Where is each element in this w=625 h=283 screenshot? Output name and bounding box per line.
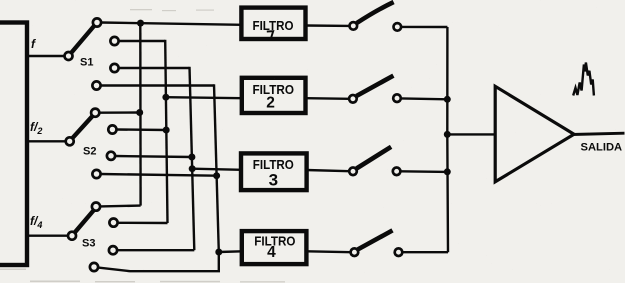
junction node output bus / amp input [444, 131, 451, 138]
wire S2 throw4 to bus 4 [101, 174, 217, 176]
wire S3 throw4 to bus 4 [98, 252, 219, 271]
switch S1 pole [65, 52, 73, 60]
wire S1 throw4 to bus 4 [101, 84, 214, 86]
wire bus 2 to filter 2 input [166, 97, 242, 98]
wire S2 throw2 to bus 2 [117, 128, 167, 131]
junction node bus1/filter1 line [137, 20, 144, 27]
output switch 2 contact b [393, 94, 401, 102]
wire bus 3 vertical (filter 3 net) [190, 67, 195, 250]
output switch 3 contact a [349, 168, 357, 176]
wire bus 1 vertical (filter 1 net) [139, 23, 142, 206]
output switch 4 contact a [351, 248, 359, 256]
signal source box [0, 23, 27, 266]
junction node bus3/S2 [188, 154, 195, 161]
wire S3 throw2 to bus 2 [118, 222, 168, 225]
wire filter 4 output [307, 250, 351, 253]
wire output bus vertical [446, 27, 449, 252]
switch S1 arm [72, 26, 95, 53]
junction node bus4/S2 [213, 172, 220, 179]
output switch 2 arm (open) [356, 76, 393, 96]
switch S3 throw 3 [109, 246, 117, 254]
output switch 2 contact a [349, 95, 357, 103]
output switch 4 arm (open) [358, 230, 393, 249]
wire bus 3 to filter 3 input [192, 169, 242, 170]
switch S3 arm [75, 211, 94, 233]
wire S3 throw1 to bus 1 [100, 204, 140, 207]
junction node output bus / switch 3 [444, 168, 451, 175]
output switch 4 contact b [395, 248, 403, 256]
wire S3 throw3 to bus 3 [117, 249, 194, 251]
wire S2 throw3 to bus 3 [115, 156, 192, 157]
switch S2 arm [73, 116, 93, 138]
junction node bus2/filter2 line [162, 94, 169, 101]
wire switch 1 to output bus [401, 26, 447, 29]
wire S1 throw3 to bus 3 [119, 67, 190, 69]
wire bus 4 to filter 4 input [219, 250, 242, 253]
switch S2 pole [66, 137, 74, 145]
switch S2 throw 1 [91, 109, 99, 117]
waveform symbol [573, 63, 594, 96]
output switch 1 arm (open) [357, 2, 394, 23]
wire filter 3 output [306, 170, 349, 171]
switch S3 throw 1 [92, 203, 100, 211]
wire f/4 from source to S3 pole [27, 234, 68, 236]
output switch 3 arm (open) [357, 147, 392, 169]
filter block FILTRO 2 [242, 78, 306, 113]
output switch 1 contact a [350, 22, 358, 30]
filter block FILTRO 1 [241, 8, 305, 39]
wire bus 4 vertical (filter 4 net) [214, 84, 219, 252]
switch S3 throw 2 [109, 219, 117, 227]
switch S3 throw 4 [90, 263, 98, 271]
junction node output bus / switch 2 [444, 96, 451, 103]
switch S3 pole [68, 232, 76, 240]
junction node bus4/filter4 line [215, 249, 222, 256]
output switch 1 contact b [394, 23, 402, 31]
switch S2 throw 3 [107, 152, 115, 160]
switch S1 throw 4 [92, 81, 100, 89]
switch S1 throw 1 [93, 18, 101, 26]
wire S1 throw2 to bus 2 [119, 40, 166, 42]
wire switch 4 to output bus [402, 251, 448, 253]
wire filter 2 output [306, 97, 349, 100]
junction node bus1/S2 [136, 109, 143, 116]
switch S2 throw 4 [92, 170, 100, 178]
wire amplifier output SALIDA [572, 133, 625, 134]
switch S2 throw 2 [108, 125, 116, 133]
switch S1 throw 3 [110, 64, 118, 72]
wire output bus segment to amplifier input [447, 133, 496, 135]
junction node bus3/filter3 line [189, 165, 196, 172]
wire S2 throw1 to bus 1 [99, 111, 139, 114]
wire f from source to S1 pole [27, 55, 65, 57]
output switch 3 contact b [393, 168, 401, 176]
wire f/2 from source to S2 pole [27, 140, 66, 142]
switch S1 throw 2 [110, 37, 118, 45]
wire switch 2 to output bus [401, 97, 448, 100]
wire bus 2 vertical (filter 2 net) [165, 40, 167, 223]
filter block FILTRO 4 [242, 231, 307, 264]
amplifier U1 triangle [495, 86, 574, 182]
filter block FILTRO 3 [241, 153, 307, 190]
wire switch 3 to output bus [400, 170, 447, 173]
junction node bus2/S2 [163, 127, 170, 134]
wire S1 throw1 to filter 1 input [101, 23, 242, 25]
scan noise overlay (decorative) [0, 0, 1, 1]
wire filter 1 output [306, 24, 350, 27]
